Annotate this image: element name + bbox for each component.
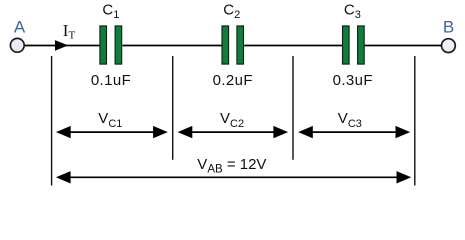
- current arrow IT head: [55, 40, 68, 51]
- node B terminal circle: [442, 39, 456, 53]
- svg-text:0.1uF: 0.1uF: [91, 72, 131, 89]
- svg-text:B: B: [443, 18, 454, 37]
- VC3 dimension arrow: [298, 126, 410, 138]
- wire C3 to B: [365, 45, 442, 47]
- node A terminal circle: [10, 38, 24, 52]
- VC1 dimension arrow: [56, 126, 168, 138]
- svg-text:0.2uF: 0.2uF: [213, 72, 253, 89]
- VAB dimension arrow: [56, 171, 411, 183]
- dimension extension line at B side: [414, 56, 416, 186]
- VC2 dimension arrow: [178, 126, 289, 138]
- wire A to C1: [24, 45, 99, 47]
- dimension extension line at A side: [51, 56, 53, 186]
- wire C1 to C2: [123, 45, 222, 47]
- dimension extension line between C1 and C2: [172, 56, 174, 160]
- wire C2 to C3: [244, 45, 342, 47]
- svg-text:A: A: [14, 18, 26, 37]
- capacitor C2 plates: [222, 26, 244, 64]
- dimension extension line between C2 and C3: [292, 56, 294, 160]
- capacitor C3 plates: [343, 26, 365, 64]
- svg-text:0.3uF: 0.3uF: [333, 72, 373, 89]
- capacitor C1 plates: [100, 26, 122, 64]
